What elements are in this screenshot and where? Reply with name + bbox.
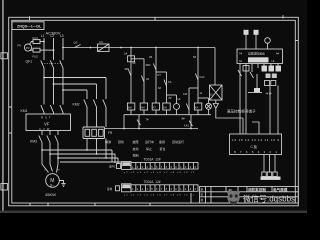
- wire stub to C board 2: [252, 122, 259, 134]
- svg-text:KT: KT: [153, 106, 157, 110]
- contactor KM3 pole 1: [39, 136, 42, 143]
- frame zone box left lower: [1, 184, 8, 191]
- wire pe run: [60, 161, 121, 163]
- svg-text:L2: L2: [51, 34, 55, 38]
- svg-text:KM3: KM3: [30, 140, 37, 144]
- fuse FU: [98, 44, 110, 52]
- title block row line 1: [200, 191, 299, 193]
- wire ladder rail 3: [155, 48, 157, 104]
- junction dot bypass 1: [43, 77, 45, 79]
- drawing frame outer border: [9, 17, 299, 206]
- breaker QF1 pole 1: [41, 61, 44, 69]
- soft starter VF: [26, 114, 71, 131]
- contactor KM3 pole 2: [47, 136, 50, 143]
- wire drop to strip 2: [114, 154, 116, 163]
- wire PV to L2: [30, 49, 34, 52]
- cluster stub wires: [257, 64, 259, 69]
- wire ladder link 7-8: [198, 97, 209, 99]
- wire control top rail: [63, 47, 215, 49]
- junction dot FR 3: [105, 157, 107, 159]
- wire VF out V: [49, 131, 51, 136]
- junction dot L2 tap: [53, 49, 55, 51]
- svg-text:5#: 5#: [193, 55, 197, 59]
- wire drop to bus 2: [190, 115, 192, 129]
- lamp HL1: [174, 104, 180, 110]
- wire bypass drop 3: [86, 90, 88, 99]
- contactor KM1 pole 1: [41, 105, 44, 113]
- svg-text:KA: KA: [163, 106, 167, 110]
- svg-text:L1: L1: [41, 34, 45, 38]
- photo bottom edge strip: [0, 211, 307, 213]
- wire C board down 2: [269, 155, 271, 173]
- svg-text:延喷: 延喷: [118, 139, 124, 144]
- cabinet top pin 3 lamp: [267, 43, 269, 49]
- plug foot 2: [267, 172, 271, 177]
- svg-text:QS: QS: [74, 41, 78, 45]
- svg-text:自耦减压起动: 自耦减压起动: [248, 52, 265, 56]
- breaker QF1 pole 3: [60, 61, 63, 69]
- wire phase L2 mid: [53, 68, 55, 105]
- wire phase L1 upper: [43, 38, 45, 60]
- junction dot left drop: [123, 128, 125, 130]
- wire FR out 3: [105, 139, 107, 159]
- junction dot bus 2: [190, 128, 192, 130]
- svg-text:SB1: SB1: [125, 67, 130, 71]
- svg-text:9#: 9#: [182, 117, 186, 121]
- autotransformer cabinet box: [237, 49, 283, 64]
- contactor KM2 pole 3: [103, 100, 106, 108]
- wire into VF box: [43, 113, 45, 115]
- wire phase L2 upper: [53, 38, 55, 60]
- coil KM2: [140, 103, 147, 110]
- motor M1: [46, 174, 60, 188]
- cabinet name plate: [248, 57, 269, 62]
- svg-text:审: 审: [201, 193, 204, 197]
- svg-text:自耦起动: 自耦起动: [250, 58, 262, 63]
- svg-text:校: 校: [201, 198, 204, 202]
- button SB1: [128, 56, 135, 62]
- svg-text:FR: FR: [108, 131, 113, 135]
- contact below cluster: [250, 72, 254, 78]
- wire cluster to C board 2: [277, 86, 279, 135]
- title block row line 2: [200, 196, 299, 198]
- contact FR aux: [137, 120, 141, 126]
- wire drop to strip 3: [117, 158, 119, 164]
- wire FR out 1: [86, 139, 88, 151]
- wire motor lead V: [50, 154, 53, 172]
- thermal relay FR: [83, 127, 105, 139]
- cabinet lower wire 1: [239, 64, 241, 135]
- svg-text:ZNQD—1—DL: ZNQD—1—DL: [17, 25, 42, 29]
- svg-text:备用: 备用: [159, 139, 165, 144]
- breaker QF1 pole 2: [50, 61, 53, 69]
- junction dot control tap: [62, 47, 64, 49]
- frame tick bottom 1: [29, 203, 31, 206]
- wire ladder rail 5: [176, 95, 178, 104]
- wire T1 to terminal board: [216, 109, 243, 119]
- coil KM1: [127, 103, 134, 110]
- C board terminal box: [230, 134, 282, 155]
- plug bottom bar: [261, 177, 281, 180]
- svg-text:7#: 7#: [146, 118, 150, 122]
- contactor KM2 pole 2: [93, 100, 96, 108]
- junction dot QS right: [90, 47, 92, 49]
- junction dot bypass 3: [62, 89, 64, 91]
- wire left drop to bus: [123, 115, 125, 129]
- title block column lines: [205, 187, 207, 204]
- frame tick right 1: [295, 40, 298, 42]
- svg-text:PV: PV: [18, 44, 22, 48]
- wire bypass tap 1: [44, 77, 106, 79]
- contactor KM2 pole 1: [84, 100, 87, 108]
- lamp HL2: [206, 103, 212, 109]
- aux plug box: [256, 74, 258, 88]
- junction dot motor lead 2: [49, 153, 51, 155]
- relay cluster box f: [265, 81, 270, 86]
- voltmeter PV: [24, 44, 31, 51]
- contactor KM1 pole 2: [50, 105, 53, 113]
- plug foot 1: [262, 172, 266, 177]
- svg-text:自动运行: 自动运行: [172, 139, 184, 144]
- wire phase L3 upper: [62, 38, 64, 60]
- drawing number box: [12, 22, 44, 30]
- svg-text:电气原理: 电气原理: [273, 187, 288, 192]
- wire ladder rail 7: [197, 48, 199, 104]
- junction dot bus 1: [138, 128, 140, 130]
- svg-text:4# 6#: 4# 6#: [266, 93, 273, 96]
- wire C board down 1: [263, 155, 265, 173]
- contact on rail 7: [195, 74, 198, 81]
- svg-text:FU: FU: [100, 40, 104, 44]
- cabinet top pin 2: [255, 34, 257, 50]
- svg-text:KM1: KM1: [21, 109, 28, 113]
- svg-text:KA: KA: [195, 106, 199, 110]
- wire ladder rail 2: [143, 59, 145, 103]
- junction dot FR 1: [86, 149, 88, 151]
- svg-text:高压控制柜号端子: 高压控制柜号端子: [227, 109, 256, 114]
- svg-text:KA: KA: [168, 80, 172, 84]
- wire motor lead W: [57, 158, 59, 173]
- wire drop to strip 1: [111, 150, 113, 162]
- wire cluster to C board 1: [269, 86, 271, 135]
- coil KT1: [152, 103, 159, 110]
- contact on rail 4: [164, 80, 167, 87]
- wire to transformer box: [214, 48, 216, 86]
- wire motor branch 2: [50, 143, 115, 155]
- svg-text:x1 x2 x3 x4 x5 x6 x7 x8 x9 10: x1 x2 x3 x4 x5 x6 x7 x8 x9 10 11: [124, 172, 195, 174]
- wire control bottom bus: [105, 128, 199, 130]
- svg-text:KM2: KM2: [73, 103, 80, 107]
- svg-text:微信号:dqsbbs: 微信号:dqsbbs: [243, 193, 295, 203]
- wire phase L3 mid: [62, 68, 64, 105]
- svg-text:停止: 停止: [146, 146, 152, 151]
- svg-text:8 7 6 5 4 3 2 1: 8 7 6 5 4 3 2 1: [234, 150, 277, 154]
- wire ladder bottom rail: [124, 114, 211, 116]
- frame tick bottom 2: [47, 203, 49, 206]
- frame tick top 3: [282, 15, 284, 18]
- svg-text:3~: 3~: [50, 182, 55, 187]
- wire motor lead U: [42, 150, 49, 173]
- wire ladder link 1-2: [131, 58, 144, 60]
- svg-text:运行中: 运行中: [145, 139, 154, 144]
- ground PE at motor: [59, 181, 63, 184]
- switch QS: [75, 45, 81, 48]
- junction dot after FU: [120, 47, 122, 49]
- svg-text:KM: KM: [183, 92, 187, 96]
- svg-text:45KW: 45KW: [45, 192, 56, 197]
- frame stub above title block: [190, 193, 192, 203]
- svg-text:FU2: FU2: [33, 54, 39, 58]
- svg-text:R S T: R S T: [41, 116, 51, 120]
- junction dot L1 tap: [43, 41, 45, 43]
- wire ladder rail 8: [208, 98, 210, 103]
- wire ladder rail 1: [130, 48, 132, 104]
- wire PV to L1: [30, 42, 34, 45]
- transformer T1: [210, 85, 223, 100]
- svg-text:KA2: KA2: [200, 75, 205, 79]
- wire ladder link 3-4: [156, 71, 167, 73]
- junction dot rail c: [197, 47, 199, 49]
- wire FR out 2: [96, 139, 98, 155]
- frame tick top 1: [29, 16, 31, 20]
- terminal strip 2 cap: [122, 184, 132, 192]
- svg-text:16 15 14 13 12 11 10 9: 16 15 14 13 12 11 10 9: [232, 138, 279, 142]
- relay cluster block a: [262, 66, 268, 72]
- svg-text:3#: 3#: [149, 55, 153, 59]
- relay cluster box g: [271, 81, 276, 86]
- svg-text:TD01A 12#: TD01A 12#: [144, 158, 161, 162]
- wire ladder rail 6: [188, 88, 190, 115]
- wire VF out U: [41, 131, 43, 136]
- contact on rail 3: [153, 64, 156, 71]
- watermark logo: [227, 191, 239, 205]
- svg-text:FU1: FU1: [33, 36, 39, 40]
- wire bypass drop 1: [105, 78, 107, 100]
- svg-text:KM: KM: [128, 106, 132, 110]
- svg-text:KM: KM: [141, 106, 145, 110]
- frame zone box left upper: [1, 53, 8, 59]
- relay cluster block d: [266, 74, 271, 79]
- svg-text:KA1: KA1: [184, 124, 189, 128]
- cluster bottom bar: [248, 92, 262, 94]
- plug foot 3: [273, 172, 277, 177]
- terminal strip 1 row: [131, 163, 198, 170]
- svg-text:制: 制: [201, 188, 204, 192]
- svg-text:接PE: 接PE: [109, 165, 115, 169]
- contact KA aux: [189, 121, 193, 127]
- svg-text:启动: 启动: [133, 146, 139, 151]
- wire bypass drop 2: [96, 84, 98, 99]
- contactor KM3 pole 3: [55, 136, 58, 143]
- wire motor branch 1: [42, 143, 112, 151]
- svg-text:QF1: QF1: [26, 60, 33, 64]
- svg-text:VF: VF: [44, 122, 50, 127]
- svg-text:故障: 故障: [133, 139, 139, 144]
- svg-text:L3: L3: [60, 34, 64, 38]
- svg-text:1 2 3 4 5 6 7 8 9 0 1 2 3 4: 1 2 3 4 5 6 7 8 9 0 1 2 3 4: [132, 165, 197, 169]
- wire ladder link 4-5: [167, 94, 177, 96]
- wire bypass tap 3: [63, 89, 87, 91]
- frame tick left 1: [9, 106, 12, 108]
- coil KA1: [163, 103, 170, 110]
- svg-text:TD01A 12#: TD01A 12#: [144, 180, 161, 184]
- coil KA2: [194, 103, 201, 110]
- drawing frame inner border: [12, 20, 296, 203]
- contact on rail 6: [186, 104, 189, 111]
- junction dot FR 2: [96, 153, 98, 155]
- junction dot rail b: [155, 47, 157, 49]
- fuse FU2: [33, 48, 40, 52]
- actuator symbol below T1: [215, 100, 217, 103]
- svg-text:KT: KT: [158, 73, 162, 77]
- svg-text:x1 x2 x3 x4 x5 x6 x7 x8 x9 10: x1 x2 x3 x4 x5 x6 x7 x8 x9 10 11: [124, 194, 195, 196]
- svg-text:消防泵控制: 消防泵控制: [248, 187, 266, 192]
- svg-text:1 2 3 4 5 6 7 8 9 0 1 2 3 4: 1 2 3 4 5 6 7 8 9 0 1 2 3 4: [132, 187, 197, 191]
- svg-text:C 板: C 板: [251, 144, 258, 149]
- wire bypass tap 2: [54, 83, 97, 85]
- photo left edge strip: [2, 0, 4, 213]
- terminal strip 2 row: [131, 185, 198, 192]
- terminal strip 1 cap: [122, 162, 132, 170]
- wire motor branch 3: [58, 143, 118, 159]
- wire ladder link 6-7: [189, 87, 198, 89]
- svg-text:HL: HL: [178, 97, 182, 101]
- relay cluster block c: [276, 66, 282, 72]
- relay cluster block b: [269, 66, 275, 72]
- svg-text:U V W: U V W: [39, 127, 50, 131]
- contactor KM1 pole 3: [60, 105, 63, 113]
- junction dot motor lead 3: [57, 157, 59, 159]
- contact on rail 1: [128, 70, 131, 77]
- wire drop to C board 1: [242, 118, 244, 134]
- breaker QF1 linkage: [42, 63, 62, 65]
- svg-text:控制: 控制: [133, 152, 139, 157]
- svg-text:接地: 接地: [107, 187, 113, 191]
- wire ladder rail 4: [166, 72, 168, 103]
- fuse FU1: [33, 40, 40, 44]
- svg-text:PV: PV: [26, 46, 30, 50]
- wire drop to bus 1: [138, 115, 140, 129]
- junction dot bypass 2: [53, 83, 55, 85]
- frame tick bottom 3: [94, 203, 96, 206]
- contact on rail 2: [141, 76, 144, 83]
- junction dot motor lead 1: [41, 149, 43, 151]
- aux box on cabinet wire 2: [245, 64, 247, 135]
- junction dot rail a: [130, 47, 132, 49]
- svg-text:1#: 1#: [124, 52, 128, 56]
- relay cluster block e: [272, 74, 277, 79]
- wire phase L1 mid: [43, 68, 45, 105]
- title block frame: [200, 187, 299, 204]
- wire VF out W: [57, 131, 59, 136]
- svg-text:SB2: SB2: [146, 63, 151, 67]
- cabinet top pin 1: [245, 34, 247, 50]
- svg-text:复位: 复位: [160, 146, 166, 151]
- wire C board down 3: [274, 155, 276, 173]
- wire coil drops: [130, 110, 132, 115]
- svg-text:喊淋: 喊淋: [105, 139, 111, 144]
- frame tick bottom 4: [149, 203, 151, 206]
- frame tick top 2: [154, 17, 156, 20]
- frame tick left 2: [9, 132, 12, 134]
- contact on cabinet wire 1: [238, 70, 242, 76]
